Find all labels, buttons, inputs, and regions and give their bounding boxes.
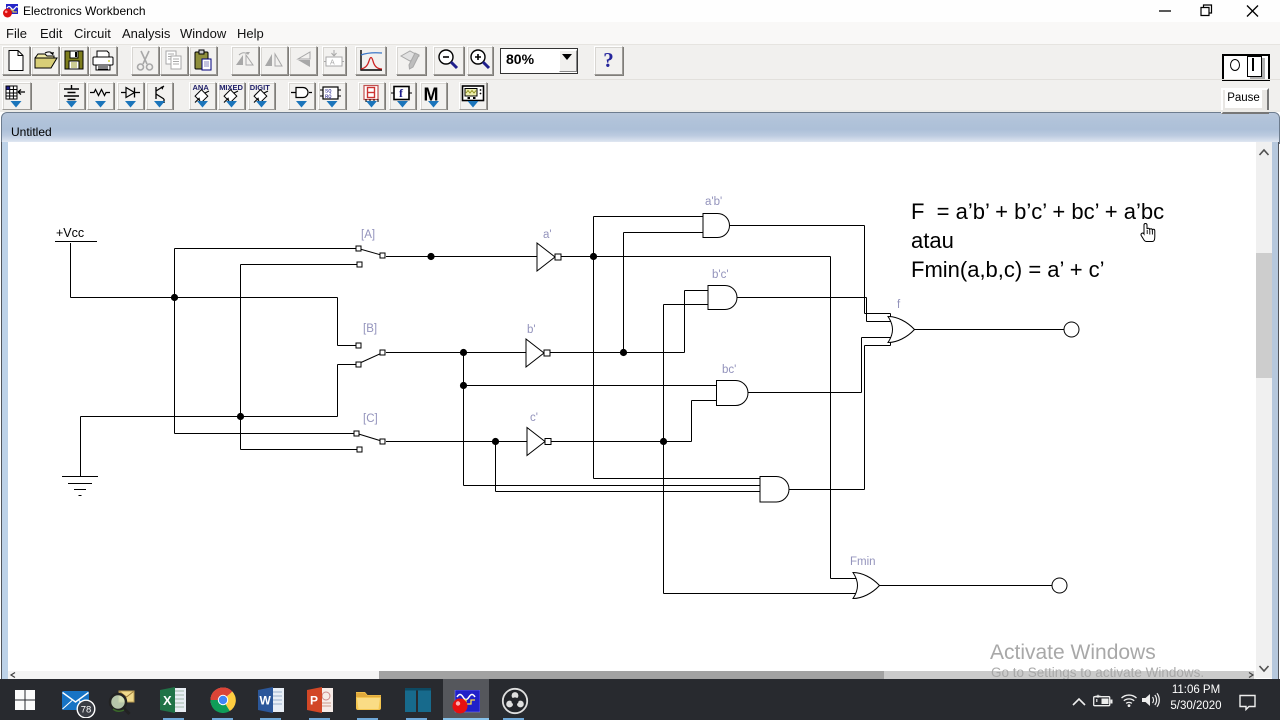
- svg-text:atau: atau: [911, 228, 954, 253]
- svg-text:F = a’b’ + b’c’ + bc’ + a’bc: F = a’b’ + b’c’ + bc’ + a’bc: [911, 199, 1164, 224]
- svg-text:b': b': [527, 324, 536, 336]
- svg-text:bc': bc': [722, 364, 736, 376]
- svg-text:P: P: [310, 694, 318, 708]
- svg-text:Fmin: Fmin: [850, 556, 876, 568]
- svg-text:Fmin(a,b,c) = a’ + c’: Fmin(a,b,c) = a’ + c’: [911, 257, 1105, 282]
- svg-text:[B]: [B]: [363, 323, 377, 335]
- svg-text:a'b': a'b': [705, 196, 722, 208]
- svg-text:f: f: [897, 299, 901, 311]
- svg-text:[A]: [A]: [361, 229, 375, 241]
- svg-text:+Vcc: +Vcc: [56, 226, 84, 240]
- svg-text:[C]: [C]: [363, 413, 378, 425]
- svg-text:a': a': [543, 229, 552, 241]
- svg-text:b'c': b'c': [712, 269, 729, 281]
- svg-text:c': c': [530, 412, 538, 424]
- svg-text:W: W: [260, 694, 272, 708]
- svg-text:X: X: [163, 693, 172, 708]
- svg-text:78: 78: [81, 704, 92, 715]
